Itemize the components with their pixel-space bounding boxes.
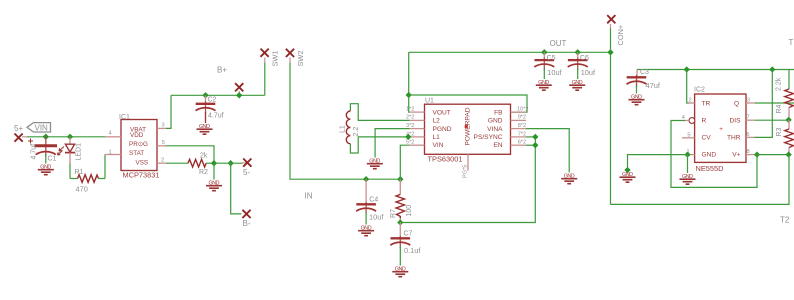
svg-text:T: T [789, 38, 794, 47]
pin 2 (TR) [689, 97, 695, 103]
svg-text:7: 7 [747, 115, 750, 121]
wire B+ rail [171, 94, 265, 96]
svg-text:IN: IN [305, 191, 313, 200]
node R2 junction [211, 160, 217, 166]
svg-text:R1: R1 [75, 169, 84, 176]
capacitor C3 [627, 70, 647, 94]
wire timing rail (TR/THR/C3) [637, 69, 794, 71]
node VOUT junction [406, 92, 412, 98]
ground (C4) [358, 226, 374, 236]
pin 2 (VSS) [157, 158, 166, 164]
node EN junction [532, 142, 538, 148]
node C2 junction [202, 92, 208, 98]
node C4 junction [363, 176, 369, 182]
svg-text:TR: TR [702, 101, 711, 108]
svg-text:VINA: VINA [487, 126, 503, 133]
svg-text:TPS63001: TPS63001 [428, 155, 463, 164]
wire TR riser [687, 70, 689, 104]
inductor L1 [346, 104, 409, 153]
pin 2*2 (L2) [406, 115, 425, 121]
svg-text:R4: R4 [776, 104, 783, 113]
ground (PGND) [367, 159, 383, 169]
node DIS junction [785, 117, 791, 123]
svg-text:10uf: 10uf [369, 212, 384, 221]
svg-text:6*2: 6*2 [518, 140, 526, 146]
pad X B+ [235, 83, 243, 91]
wire FB loop [409, 95, 527, 112]
svg-text:SW1: SW1 [271, 50, 280, 66]
node B+ junction [236, 92, 242, 98]
svg-text:NE555D: NE555D [696, 164, 724, 173]
svg-text:THR: THR [727, 135, 741, 142]
svg-text:3: 3 [747, 97, 750, 103]
capacitor C1 [28, 137, 57, 164]
ground (IC2 GND pin) [680, 174, 696, 184]
capacitor C4 [356, 179, 376, 224]
svg-text:B-: B- [243, 219, 251, 228]
svg-text:0.1uf: 0.1uf [404, 246, 421, 255]
svg-text:7*2: 7*2 [518, 131, 526, 137]
pin 9*2 (GND) [511, 115, 527, 121]
svg-text:PR⊙G: PR⊙G [129, 141, 148, 148]
svg-text:IC2: IC2 [694, 87, 705, 94]
svg-text:8: 8 [747, 149, 750, 155]
ground (R2) [206, 181, 222, 191]
wire GND pin drop [687, 155, 689, 173]
node R7/C7 junction [397, 219, 403, 225]
pin 7 (DIS) [746, 115, 755, 121]
ground (VINA) [561, 174, 577, 184]
wire bottom V+ rail [611, 155, 790, 205]
pin 5 (PROG) [157, 140, 166, 146]
svg-text:OUT: OUT [550, 39, 567, 48]
capacitor C6 [568, 52, 588, 79]
svg-text:U1: U1 [425, 98, 434, 105]
pin PG*5 [463, 154, 469, 178]
wire R to V+ loop [671, 121, 757, 188]
svg-text:L2: L2 [433, 118, 441, 125]
wire B- drop [231, 163, 242, 214]
svg-text:R2: R2 [199, 169, 208, 176]
svg-text:100: 100 [406, 205, 413, 217]
resistor R4 [785, 70, 794, 120]
pin 3 (VBAT) [157, 123, 166, 129]
svg-text:+: + [719, 126, 723, 133]
wire PGND to gnd [375, 129, 409, 158]
pin 1 (GND) [687, 149, 695, 155]
supply flag VIN [27, 123, 51, 133]
svg-text:C7: C7 [404, 231, 413, 238]
svg-text:T2: T2 [780, 215, 790, 224]
wire R2 node to gnd [213, 163, 215, 179]
svg-text:MCP73831: MCP73831 [123, 171, 160, 180]
ground (C6) [569, 80, 585, 90]
wire EN stub [526, 144, 535, 146]
svg-text:2*2: 2*2 [406, 115, 414, 121]
svg-text:FB: FB [494, 110, 503, 117]
svg-text:5-: 5- [243, 168, 250, 177]
wire THR riser [755, 70, 773, 138]
node GND junction [684, 151, 690, 157]
pad X 5- [243, 159, 251, 167]
wire VIN pin to IN rail [400, 145, 409, 179]
node gnd dot [624, 167, 630, 173]
svg-text:47uf: 47uf [646, 81, 661, 90]
node LED junction [67, 134, 73, 140]
pin 1 (STAT) [105, 150, 121, 156]
svg-text:L1: L1 [433, 134, 441, 141]
svg-text:B+: B+ [217, 66, 227, 75]
resistor R7 [396, 179, 404, 222]
pin 8*2 (VINA) [511, 123, 527, 129]
IC IC2 NE555D box [695, 94, 746, 162]
svg-text:470: 470 [76, 185, 88, 194]
resistor R1 [70, 155, 105, 183]
svg-text:2: 2 [689, 97, 692, 103]
svg-text:VDD: VDD [130, 132, 144, 139]
pin 4 (R) with bubble [682, 115, 695, 123]
svg-text:CV: CV [702, 135, 712, 142]
svg-text:C5: C5 [547, 55, 556, 62]
svg-text:VIN: VIN [35, 123, 49, 132]
ground (C1) [38, 165, 54, 175]
node C1 junction [43, 134, 49, 140]
svg-text:C1: C1 [48, 156, 57, 163]
svg-text:STAT: STAT [129, 150, 144, 157]
svg-text:Q: Q [734, 101, 739, 108]
pin 1*2 (VOUT) [406, 107, 425, 113]
svg-text:VIN: VIN [433, 142, 444, 149]
wire pin3 riser to B+ rail [166, 95, 171, 128]
pad X SW2 [286, 49, 294, 57]
LED LED1 [58, 137, 76, 179]
svg-text:GND: GND [488, 118, 503, 125]
svg-text:SW2: SW2 [296, 50, 305, 66]
pin 5*2 (VIN) [406, 140, 425, 146]
pin 10*2 (FB) [511, 106, 529, 112]
svg-text:CON+: CON+ [616, 25, 625, 46]
svg-text:1: 1 [109, 150, 112, 156]
svg-text:2: 2 [161, 158, 164, 164]
pin 7*2 (PS/SYNC) [511, 131, 527, 137]
svg-text:4.7uf: 4.7uf [208, 113, 224, 120]
wire pin2 to R2 [166, 162, 188, 164]
ground (C7) [392, 267, 408, 277]
svg-text:EN: EN [493, 142, 502, 149]
wire VINA to gnd [526, 129, 569, 173]
svg-text:2k: 2k [200, 152, 208, 159]
svg-text:C6: C6 [580, 55, 589, 62]
wire PS/SYNC stub [526, 136, 535, 138]
svg-text:PG*5: PG*5 [463, 165, 469, 178]
node L1 pin junction [405, 134, 411, 140]
ground (C3) [629, 95, 645, 105]
wire OUT top rail [409, 52, 611, 204]
wire VIN row [22, 136, 27, 138]
node C6 junction [575, 49, 581, 55]
node V+ junction [754, 151, 760, 157]
ground (IC2 left) [620, 172, 636, 182]
resistor R2 [188, 159, 214, 167]
pin 3 (Q) [746, 97, 755, 103]
svg-text:4: 4 [109, 131, 112, 137]
svg-text:C4: C4 [369, 197, 378, 204]
wire SW1 drop [264, 63, 266, 96]
pin 4*2 (L1) [406, 131, 425, 137]
svg-text:10uf: 10uf [581, 68, 596, 77]
svg-text:10*2: 10*2 [517, 106, 529, 112]
wire GND net [628, 155, 688, 170]
capacitor C5 [534, 52, 554, 79]
svg-text:R3: R3 [776, 128, 783, 137]
svg-text:V+: V+ [732, 152, 740, 159]
pin 4 (VDD) [105, 131, 121, 137]
pin 6 (THR) [746, 132, 755, 138]
node B- junction [228, 160, 234, 166]
svg-text:VSS: VSS [136, 160, 149, 167]
pad X B- [242, 210, 250, 218]
svg-text:IC1: IC1 [119, 114, 130, 121]
svg-text:C2: C2 [208, 97, 217, 104]
node C5 junction [541, 49, 547, 55]
wire Q out (clipped) [755, 102, 794, 104]
svg-text:8*2: 8*2 [518, 123, 526, 129]
capacitor C7 [390, 223, 410, 266]
svg-text:DIS: DIS [730, 118, 742, 125]
wire V+ to R3 [755, 154, 789, 156]
svg-text:6: 6 [747, 132, 750, 138]
wire CON+ stub [610, 29, 612, 53]
svg-text:5: 5 [687, 132, 690, 138]
wire to 5- pad [214, 162, 243, 164]
svg-text:10uf: 10uf [547, 68, 562, 77]
IC U1 TPS63001 box [425, 104, 511, 154]
wire DIS to R3/R4 node [755, 119, 789, 121]
svg-text:VOUT: VOUT [433, 110, 451, 117]
svg-text:2.2: 2.2 [353, 127, 360, 137]
svg-text:5: 5 [162, 140, 165, 146]
node TR junction [684, 66, 690, 72]
svg-text:1*2: 1*2 [406, 107, 414, 113]
svg-text:R7: R7 [390, 209, 397, 218]
pin 5 (CV) stub [682, 132, 695, 138]
resistor R3 [785, 120, 794, 155]
svg-text:5+: 5+ [14, 124, 23, 133]
pad X CON+ [607, 15, 615, 23]
svg-text:4.7uf: 4.7uf [31, 144, 38, 160]
pin 3*2 (PGND) [406, 123, 425, 129]
pad X 5+ [15, 134, 23, 142]
wire VOUT riser [408, 52, 411, 112]
svg-text:9*2: 9*2 [518, 115, 526, 121]
svg-text:R: R [702, 118, 707, 125]
svg-text:C3: C3 [640, 69, 649, 76]
pad X SW1 [261, 49, 269, 57]
node VIN/R7 junction [397, 176, 403, 182]
wire B+ pad stub [238, 91, 240, 95]
IC U1=IC1 MCP73831 box [121, 120, 157, 171]
node PS junction [532, 134, 538, 140]
svg-text:PGND: PGND [433, 126, 452, 133]
ground (C2) [197, 124, 213, 134]
svg-text:PS/SYNC: PS/SYNC [474, 134, 503, 141]
svg-text:LED1: LED1 [76, 143, 83, 161]
svg-text:L1: L1 [340, 125, 347, 133]
node THR junction [769, 66, 775, 72]
wire pin5 to R2 node [166, 146, 214, 163]
svg-text:2.2k: 2.2k [776, 77, 783, 91]
node CON+ junction [607, 49, 613, 55]
svg-text:GND: GND [702, 152, 717, 159]
wire EN bottom rail [400, 137, 535, 223]
pin 6*2 (EN) [511, 140, 527, 146]
capacitor C2 [196, 95, 216, 123]
wire SW2 drop to IN rail [289, 58, 291, 63]
pin 8 (V+) [746, 149, 755, 155]
ground (C5) [536, 80, 552, 90]
svg-text:3: 3 [162, 123, 165, 129]
node R3 bottom junction [785, 151, 791, 157]
